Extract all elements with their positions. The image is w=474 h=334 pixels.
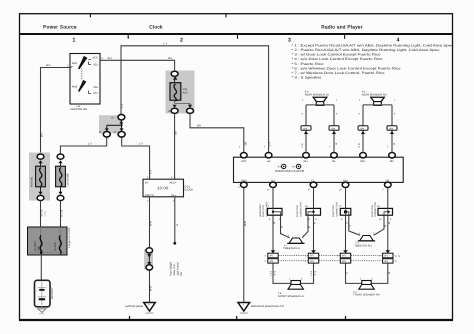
svg-text:8: 8 xyxy=(267,189,269,192)
svg-text:4F5: 4F5 xyxy=(342,260,347,263)
svg-text:2: 2 xyxy=(379,255,381,258)
svg-text:2: 2 xyxy=(265,260,267,263)
svg-text:1E: 1E xyxy=(99,131,102,134)
svg-text:+B: +B xyxy=(267,160,271,163)
svg-text:REAR SPEAKER LH: REAR SPEAKER LH xyxy=(305,94,329,97)
wire: fuse DOME down to fusible link block xyxy=(61,201,64,228)
svg-text:Clock: Clock xyxy=(149,24,163,29)
svg-text:CONNECTOR: CONNECTOR xyxy=(374,202,377,217)
svg-text:J 7: J 7 xyxy=(266,205,270,208)
svg-text:SW: SW xyxy=(180,271,183,276)
svg-text:J 8: J 8 xyxy=(377,205,381,208)
junction connector J6 (front RH +) xyxy=(332,202,351,221)
svg-text:TWEETER RH: TWEETER RH xyxy=(354,244,371,247)
svg-text:G: G xyxy=(346,272,349,274)
wire: rear speaker RH left lead xyxy=(358,105,365,153)
front speaker RH xyxy=(353,278,379,297)
svg-text:* 2 : Puerto Rico/USA A/T w/o: * 2 : Puerto Rico/USA A/T w/o ABS, Dayti… xyxy=(292,48,441,52)
wire: radio FR- down xyxy=(388,188,391,251)
wire: rear speaker RH right lead xyxy=(390,105,396,153)
svg-text:EARTH: EARTH xyxy=(145,194,154,197)
wire GR: fuse ACC to radio ACC xyxy=(190,114,247,153)
svg-text:2.0L: 2.0L xyxy=(37,245,40,251)
svg-text:4: 4 xyxy=(171,176,173,179)
svg-text:(SHIELDED): (SHIELDED) xyxy=(259,204,262,217)
connector R2 on rear LH right lead xyxy=(329,126,339,131)
svg-text:2: 2 xyxy=(301,278,303,281)
svg-text:W: W xyxy=(388,271,391,274)
svg-text:L 0.5: L 0.5 xyxy=(310,270,313,276)
connector R2 on rear LH left lead xyxy=(301,126,311,131)
wire L-Y power feed: junction connector up and right to radio +B xyxy=(121,42,272,152)
connector R2 on rear RH right lead xyxy=(387,126,397,131)
svg-text:6: 6 xyxy=(359,113,361,116)
svg-text:BATTERY: BATTERY xyxy=(51,287,54,299)
svg-text:6: 6 xyxy=(308,189,310,192)
svg-text:CONNECTOR: CONNECTOR xyxy=(335,202,338,217)
svg-text:5: 5 xyxy=(238,186,240,189)
wire G: clock ILL+ stub xyxy=(170,197,184,276)
svg-text:* 7 : w/ Wireless Door Lock Co: * 7 : w/ Wireless Door Lock Control, Pue… xyxy=(292,71,385,75)
svg-text:6: 6 xyxy=(316,218,318,221)
svg-text:FRONT SPEAKER RH: FRONT SPEAKER RH xyxy=(353,294,379,297)
svg-text:JUNCTION: JUNCTION xyxy=(296,205,299,217)
svg-text:1: 1 xyxy=(359,232,361,235)
radio and player unit xyxy=(234,157,404,182)
svg-text:L-Y: L-Y xyxy=(121,104,124,108)
svg-text:2: 2 xyxy=(180,37,183,43)
svg-text:ACC: ACC xyxy=(241,160,247,163)
wire L-Y junction to clock B+ xyxy=(122,138,153,180)
wire: radio FR+ down xyxy=(346,188,349,251)
svg-text:ACC: ACC xyxy=(92,56,98,59)
svg-text:*1 *2: *1 *2 xyxy=(44,211,47,217)
rear speaker LH xyxy=(302,90,338,105)
svg-text:B: B xyxy=(301,143,304,145)
wire W-L from ignition SW AM1 down to fuse AM xyxy=(40,64,70,154)
svg-text:IGNITION SW: IGNITION SW xyxy=(71,108,88,111)
svg-text:FRONT SPEAKER LH: FRONT SPEAKER LH xyxy=(278,295,304,298)
svg-text:L 0.5: L 0.5 xyxy=(269,270,272,276)
svg-text:4: 4 xyxy=(397,37,400,43)
svg-text:Radio and Player: Radio and Player xyxy=(321,24,363,29)
svg-text:1R2: 1R2 xyxy=(331,127,336,130)
svg-text:FL AM1: FL AM1 xyxy=(54,242,57,251)
svg-text:4: 4 xyxy=(239,146,241,149)
tweeter LH branch wires xyxy=(280,215,311,238)
wire: radio FL+ down xyxy=(273,188,276,251)
svg-text:1: 1 xyxy=(336,99,338,102)
svg-text:10: 10 xyxy=(339,189,342,192)
svg-text:1: 1 xyxy=(147,176,149,179)
svg-text:* 6 : w/o Wireless Door Lock C: * 6 : w/o Wireless Door Lock Control Exc… xyxy=(292,66,401,70)
wire: rear speaker LH left lead xyxy=(301,105,308,153)
svg-text:W-B: W-B xyxy=(150,286,153,291)
svg-text:W: W xyxy=(273,221,276,224)
svg-text:RR+: RR+ xyxy=(360,160,366,163)
svg-text:JUNCTION: JUNCTION xyxy=(371,205,374,217)
svg-text:6: 6 xyxy=(269,218,271,221)
fuse 15A ACC xyxy=(166,71,195,114)
ground: instrument panel brace LH xyxy=(238,303,284,314)
svg-text:10:00: 10:00 xyxy=(157,186,169,191)
svg-text:AM1: AM1 xyxy=(72,62,78,65)
svg-text:6: 6 xyxy=(341,218,343,221)
svg-text:7: 7 xyxy=(264,146,266,149)
wire: front speaker LH - lead xyxy=(301,263,314,283)
svg-text:L-Y: L-Y xyxy=(88,143,92,146)
ignition switch I12 xyxy=(70,54,100,112)
connector stack (FR+) xyxy=(337,250,351,263)
battery xyxy=(35,280,54,307)
wire: front speaker RH - lead xyxy=(371,263,391,283)
svg-text:RL-: RL- xyxy=(332,160,336,163)
svg-text:ACC: ACC xyxy=(183,92,189,95)
svg-text:2 Engine Room R/B: 2 Engine Room R/B xyxy=(68,227,71,248)
svg-text:2: 2 xyxy=(302,99,304,102)
svg-text:* 8 : 6 Speaker: * 8 : 6 Speaker xyxy=(292,76,323,80)
junction connector J8 (front LH -) xyxy=(296,202,320,221)
svg-text:2: 2 xyxy=(102,57,104,60)
svg-text:1: 1 xyxy=(305,255,307,258)
svg-text:JUNCTION: JUNCTION xyxy=(332,205,335,217)
tweeter RH xyxy=(354,232,375,247)
wire: front speaker RH + lead xyxy=(346,263,362,283)
rear speaker RH xyxy=(359,90,396,105)
svg-text:RADIO AND PLAYER: RADIO AND PLAYER xyxy=(275,169,305,173)
svg-text:ST2: ST2 xyxy=(93,92,98,95)
svg-text:6: 6 xyxy=(302,113,304,116)
svg-text:40A AM1: 40A AM1 xyxy=(31,176,34,187)
svg-text:6: 6 xyxy=(390,218,392,221)
svg-text:W-L: W-L xyxy=(108,57,113,60)
svg-text:1: 1 xyxy=(394,99,396,102)
front speaker LH xyxy=(278,278,304,298)
svg-text:2: 2 xyxy=(359,99,361,102)
svg-text:W-B: W-B xyxy=(150,221,153,226)
svg-text:3: 3 xyxy=(288,37,291,43)
svg-text:1: 1 xyxy=(288,235,290,238)
svg-text:CLOCK: CLOCK xyxy=(184,188,193,191)
svg-text:7: 7 xyxy=(382,189,384,192)
svg-text:1D: 1D xyxy=(113,131,116,134)
svg-text:8: 8 xyxy=(358,146,360,149)
svg-text:G: G xyxy=(346,222,349,224)
svg-text:RR-: RR- xyxy=(390,160,395,163)
wire: radio FL- down xyxy=(314,188,317,251)
svg-text:REAR SPEAKER RH: REAR SPEAKER RH xyxy=(362,94,387,97)
svg-text:W-L: W-L xyxy=(168,57,173,60)
svg-text:4F5: 4F5 xyxy=(310,260,315,263)
svg-text:W-L: W-L xyxy=(46,64,51,67)
svg-text:1: 1 xyxy=(72,37,75,43)
svg-text:4F1: 4F1 xyxy=(342,255,347,258)
svg-text:4F1: 4F1 xyxy=(310,255,315,258)
svg-text:Instrument panel brace LH: Instrument panel brace LH xyxy=(251,304,284,308)
svg-text:*8: *8 xyxy=(394,260,397,263)
ground: left kick panel xyxy=(125,303,155,314)
junction connector J9 (front RH -) xyxy=(371,202,393,221)
svg-text:G: G xyxy=(176,224,179,226)
svg-text:16: 16 xyxy=(379,218,382,221)
svg-text:5: 5 xyxy=(336,113,338,116)
clock C14 xyxy=(143,176,194,203)
svg-text:1D: 1D xyxy=(111,116,114,119)
svg-text:RL+: RL+ xyxy=(304,160,309,163)
svg-text:* 3 : w/ Door Lock Control Exc: * 3 : w/ Door Lock Control Except Puerto… xyxy=(292,53,381,57)
svg-text:IG2: IG2 xyxy=(94,86,99,89)
svg-text:*3, *5: *3, *5 xyxy=(394,255,400,258)
svg-text:J 7: J 7 xyxy=(339,205,343,208)
svg-text:GR: GR xyxy=(244,141,247,145)
wire W-B: clock EARTH to ground xyxy=(150,197,153,302)
svg-text:JUNCTION: JUNCTION xyxy=(262,205,265,217)
wire: rear speaker LH right lead xyxy=(332,105,338,153)
ground below battery xyxy=(38,307,46,314)
svg-text:2: 2 xyxy=(372,278,374,281)
svg-text:W-B: W-B xyxy=(244,221,247,226)
svg-text:2: 2 xyxy=(147,200,149,203)
wire: front speaker LH + lead xyxy=(273,263,291,283)
svg-text:CONNECTOR: CONNECTOR xyxy=(299,202,302,217)
wire: fusible link block to battery xyxy=(40,255,42,281)
connector stack IF1 (FL+) xyxy=(265,250,279,263)
svg-text:G: G xyxy=(349,225,352,227)
connector stack IF5 (FL-) xyxy=(305,250,319,263)
svg-text:1R2: 1R2 xyxy=(389,127,394,130)
svg-text:1R2: 1R2 xyxy=(360,127,365,130)
svg-text:7: 7 xyxy=(387,146,389,149)
svg-text:B 1.25: B 1.25 xyxy=(61,209,64,216)
fuse DOME 7.5A xyxy=(56,154,70,201)
svg-text:2: 2 xyxy=(301,146,303,149)
svg-text:2: 2 xyxy=(265,255,267,258)
fusible link block (Engine Room R/B) xyxy=(28,227,72,255)
svg-text:TWEETER LH: TWEETER LH xyxy=(283,247,300,250)
svg-text:* 5 : Puerto Rico: * 5 : Puerto Rico xyxy=(292,62,324,66)
svg-text:* 1 : Except Puerto Rico/USA A: * 1 : Except Puerto Rico/USA A/T w/o ABS… xyxy=(292,43,455,47)
junction connector (power splice) xyxy=(99,114,125,137)
svg-text:L-Y: L-Y xyxy=(139,143,143,146)
svg-text:J 8: J 8 xyxy=(305,205,309,208)
svg-text:*3 *6: *3 *6 xyxy=(314,270,317,276)
svg-text:7.5A DOME: 7.5A DOME xyxy=(67,173,70,187)
svg-text:GR: GR xyxy=(197,124,201,127)
svg-text:ACC+: ACC+ xyxy=(170,181,177,184)
svg-text:AM2: AM2 xyxy=(72,86,78,89)
inline connector IF1 on clock ground wire xyxy=(144,248,153,270)
svg-text:Power Source: Power Source xyxy=(43,24,77,29)
dashed harness links between front connectors xyxy=(278,256,382,261)
svg-text:1R2: 1R2 xyxy=(303,127,308,130)
svg-text:W: W xyxy=(335,142,338,145)
svg-text:L-Y: L-Y xyxy=(269,142,272,146)
svg-text:5: 5 xyxy=(394,113,396,116)
svg-text:2: 2 xyxy=(337,255,339,258)
svg-text:15A: 15A xyxy=(183,88,188,91)
svg-text:*3 *6: *3 *6 xyxy=(273,270,276,276)
junction connector J7 (front LH +) xyxy=(259,202,282,221)
svg-text:4F5: 4F5 xyxy=(269,260,274,263)
connector R2 on rear RH left lead xyxy=(358,126,368,131)
svg-text:* 4 : w/o Door Lock Control Ex: * 4 : w/o Door Lock Control Except Puert… xyxy=(292,57,383,61)
svg-text:Left kick panel: Left kick panel xyxy=(125,304,143,308)
svg-text:1: 1 xyxy=(305,260,307,263)
radio bottom terminals xyxy=(238,182,391,192)
connector stack (FR-) xyxy=(379,250,400,263)
svg-text:B+: B+ xyxy=(145,181,149,184)
svg-text:1: 1 xyxy=(329,146,331,149)
svg-text:ILL+: ILL+ xyxy=(171,194,177,197)
svg-text:W: W xyxy=(393,142,396,145)
wire W-B: radio GND to ground xyxy=(244,187,247,303)
wire: fuse AM down to fusible link block xyxy=(41,201,48,228)
wire: fuse ACC to clock ACC+ xyxy=(174,114,177,180)
svg-text:W 2.0L: W 2.0L xyxy=(41,209,44,217)
notes list xyxy=(292,43,455,79)
wire L-Y junction to fuse DOME xyxy=(60,138,106,155)
svg-text:GR: GR xyxy=(174,131,177,135)
svg-text:R: R xyxy=(314,222,317,224)
wire W-L from ignition SW ACC to fuse 15A ACC xyxy=(100,57,175,72)
tweeter RH branch wires xyxy=(349,215,387,235)
svg-text:R: R xyxy=(358,143,361,145)
svg-text:L-Y: L-Y xyxy=(164,42,168,45)
svg-text:W-L: W-L xyxy=(40,132,43,137)
svg-text:L-Y: L-Y xyxy=(149,170,152,174)
svg-text:IG1: IG1 xyxy=(94,63,99,66)
svg-text:W: W xyxy=(388,221,391,224)
svg-text:4F1: 4F1 xyxy=(269,255,274,258)
radio top terminals xyxy=(239,146,395,158)
fuse AM 40A xyxy=(29,153,50,201)
tweeter LH xyxy=(283,235,305,250)
svg-text:1B: 1B xyxy=(168,110,171,113)
